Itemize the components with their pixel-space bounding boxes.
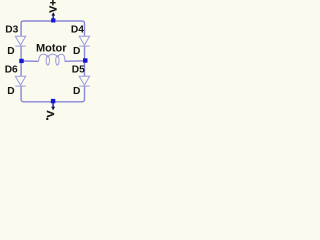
svg-text:V+: V+ [48,0,60,13]
junction node V- bottom [51,99,55,103]
svg-text:D4: D4 [71,25,84,36]
port V- stub wire [52,101,54,107]
svg-text:D3: D3 [5,25,18,36]
wire middle left segment to motor [21,60,38,62]
motor coil winding [39,54,65,65]
svg-text:D: D [73,46,80,57]
diode D4 [79,36,89,46]
port V+ arrowhead [51,12,55,15]
diode D5 [79,76,89,86]
svg-text:D6: D6 [5,65,18,76]
svg-text:V: V [45,110,57,117]
wire left rail mid junction to D6 anode [20,61,22,76]
junction node V+ top [51,18,55,22]
wire middle right segment from motor [65,60,85,63]
svg-text:D5: D5 [72,65,85,76]
svg-text:Motor: Motor [36,43,67,55]
svg-text:D: D [7,86,14,97]
port V- arrowhead [51,107,55,111]
diode D3 [15,36,25,46]
svg-text:D: D [7,46,14,57]
wire right rail mid junction to D5 anode [84,61,86,76]
junction node right mid (D4/D5/motor) [83,58,88,62]
label minus tick of V- [46,118,48,121]
wire bottom rail (left corner, bottom horizontal, right corner) [21,86,84,102]
background [0,0,101,120]
diode D6 [15,76,25,86]
wire right rail D4 cathode to mid junction [84,46,86,61]
wire left rail D3 cathode to mid junction [20,46,22,61]
port V+ stub wire [52,15,54,21]
junction node left mid (D3/D6/motor) [19,59,23,63]
wire top rail (left corner, top horizontal, right corner) [21,21,84,36]
svg-text:D: D [73,86,80,97]
